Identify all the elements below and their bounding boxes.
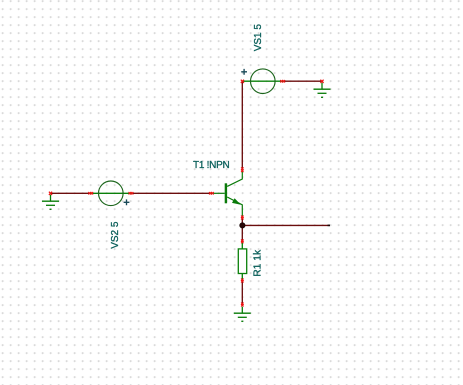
- pin marker x VS1 right: [280, 80, 285, 83]
- pin marker x resistor top: [241, 239, 244, 243]
- svg-text:T1 !NPN: T1 !NPN: [193, 160, 230, 171]
- wire: [51, 192, 91, 194]
- ground bottom: [234, 307, 251, 322]
- label R1 1k: [253, 249, 264, 277]
- wire: [284, 80, 323, 82]
- transistor T1 NPN: [211, 171, 243, 218]
- pin marker x emitter: [241, 216, 244, 220]
- ground right: [314, 83, 331, 98]
- pin marker x left ground: [49, 192, 52, 195]
- svg-text:VS2 5: VS2 5: [110, 221, 121, 249]
- ground left: [42, 195, 59, 210]
- pin marker x collector: [241, 167, 244, 172]
- voltage source VS1: [241, 69, 283, 94]
- wire: [242, 224, 330, 226]
- svg-text:R1 1k: R1 1k: [253, 249, 264, 277]
- pin marker x VS2 left: [88, 192, 93, 195]
- wire: [131, 192, 211, 194]
- wire: [241, 81, 243, 170]
- pin marker x resistor bottom: [241, 279, 244, 283]
- junction node: [240, 223, 245, 228]
- voltage source VS2: [91, 181, 132, 206]
- wire: [241, 218, 243, 241]
- label VS1 5: [253, 24, 264, 52]
- svg-text:VS1 5: VS1 5: [253, 24, 264, 52]
- resistor R1: [238, 243, 246, 280]
- wire: [241, 281, 243, 305]
- pin marker x VS2 right: [129, 192, 134, 195]
- pin marker x right ground: [320, 80, 323, 83]
- label T1 !NPN: [193, 160, 230, 171]
- pin marker x base: [209, 192, 214, 195]
- label VS2 5: [110, 221, 121, 249]
- pin marker x VS1 left: [241, 80, 244, 83]
- pin marker x bottom ground: [241, 303, 244, 307]
